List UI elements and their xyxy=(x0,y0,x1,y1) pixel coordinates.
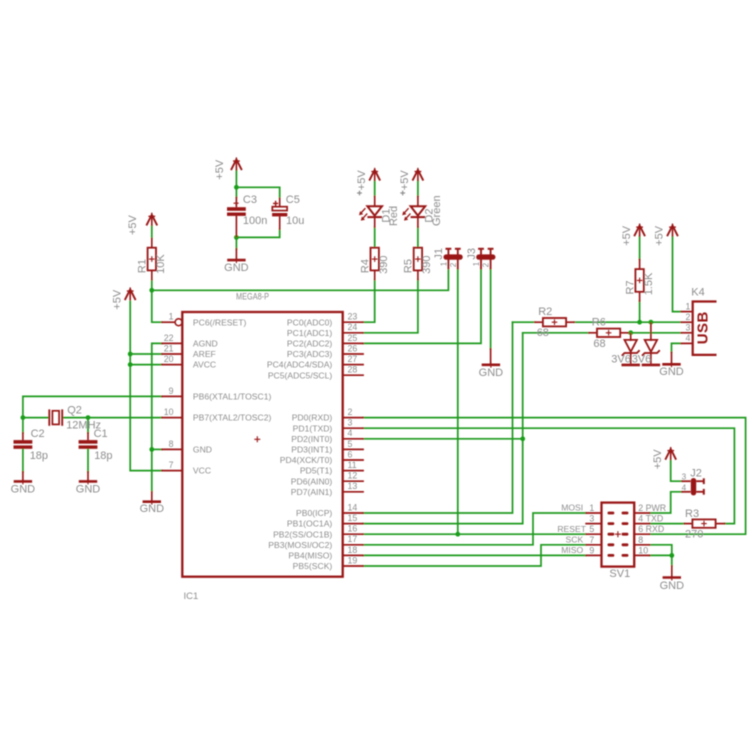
svg-text:18: 18 xyxy=(348,545,358,555)
svg-text:27: 27 xyxy=(348,354,358,364)
svg-text:+5V: +5V xyxy=(652,449,664,470)
svg-text:R4: R4 xyxy=(359,259,371,273)
svg-text:PD7(AIN1): PD7(AIN1) xyxy=(291,487,333,497)
svg-text:25: 25 xyxy=(348,333,358,343)
svg-text:R2: R2 xyxy=(538,306,552,318)
svg-text:1: 1 xyxy=(440,261,449,266)
svg-text:K4: K4 xyxy=(691,286,704,298)
svg-text:+5V: +5V xyxy=(399,170,411,191)
svg-text:1.5K: 1.5K xyxy=(643,272,655,295)
svg-text:3V6: 3V6 xyxy=(611,353,631,365)
svg-text:1: 1 xyxy=(169,312,174,322)
svg-text:PB7(XTAL2/TOSC2): PB7(XTAL2/TOSC2) xyxy=(193,413,272,423)
svg-text:PC5(ADC5/SCL): PC5(ADC5/SCL) xyxy=(268,370,333,380)
svg-text:8: 8 xyxy=(169,439,174,449)
svg-text:GND: GND xyxy=(660,580,685,592)
svg-text:18p: 18p xyxy=(94,450,112,462)
svg-text:C3: C3 xyxy=(243,194,257,206)
svg-text:4 TXD: 4 TXD xyxy=(638,514,663,524)
svg-text:R6: R6 xyxy=(592,317,606,329)
svg-text:PD2(INT0): PD2(INT0) xyxy=(291,434,332,444)
svg-text:23: 23 xyxy=(348,312,358,322)
svg-text:1: 1 xyxy=(685,301,690,311)
svg-text:3V6: 3V6 xyxy=(632,353,652,365)
svg-text:3: 3 xyxy=(589,514,594,524)
svg-text:1: 1 xyxy=(472,261,481,266)
svg-text:14: 14 xyxy=(348,502,358,512)
svg-text:PD5(T1): PD5(T1) xyxy=(300,466,333,476)
svg-text:C2: C2 xyxy=(31,428,45,440)
svg-text:9: 9 xyxy=(169,386,174,396)
svg-text:PB4(MISO): PB4(MISO) xyxy=(288,551,332,561)
svg-text:PC1(ADC1): PC1(ADC1) xyxy=(287,328,333,338)
svg-text:2: 2 xyxy=(449,262,458,267)
svg-text:7: 7 xyxy=(169,460,174,470)
svg-text:J1: J1 xyxy=(433,248,445,260)
svg-text:10: 10 xyxy=(164,407,174,417)
svg-text:PC3(ADC3): PC3(ADC3) xyxy=(287,349,333,359)
svg-text:VCC: VCC xyxy=(193,466,211,476)
svg-text:PC4(ADC4/SDA): PC4(ADC4/SDA) xyxy=(267,360,333,370)
svg-text:26: 26 xyxy=(348,343,358,353)
svg-text:1: 1 xyxy=(589,503,594,513)
svg-text:AREF: AREF xyxy=(193,349,216,359)
svg-text:R1: R1 xyxy=(137,259,149,273)
svg-text:21: 21 xyxy=(164,343,174,353)
svg-text:9: 9 xyxy=(589,545,594,555)
svg-text:2: 2 xyxy=(348,407,353,417)
svg-text:11: 11 xyxy=(348,460,357,470)
svg-text:GND: GND xyxy=(76,483,101,495)
svg-text:15: 15 xyxy=(348,513,358,523)
svg-text:Green: Green xyxy=(431,195,443,226)
svg-text:MISO: MISO xyxy=(561,545,583,555)
svg-text:R7: R7 xyxy=(624,280,636,294)
svg-text:GND: GND xyxy=(224,262,249,274)
svg-text:SCK: SCK xyxy=(566,535,584,545)
svg-text:+5V: +5V xyxy=(111,289,123,310)
svg-text:68: 68 xyxy=(537,327,549,339)
svg-text:6: 6 xyxy=(348,449,353,459)
svg-text:4: 4 xyxy=(348,428,353,438)
svg-text:PD4(XCK/T0): PD4(XCK/T0) xyxy=(280,455,333,465)
svg-text:19: 19 xyxy=(348,555,358,565)
svg-text:PC2(ADC2): PC2(ADC2) xyxy=(287,339,333,349)
svg-text:PD3(INT1): PD3(INT1) xyxy=(291,445,332,455)
svg-text:4: 4 xyxy=(682,483,687,492)
svg-text:5: 5 xyxy=(348,439,353,449)
svg-text:13: 13 xyxy=(348,481,358,491)
svg-text:12: 12 xyxy=(348,471,358,481)
svg-text:3: 3 xyxy=(348,418,353,428)
svg-text:GND: GND xyxy=(11,483,36,495)
svg-text:PC6(/RESET): PC6(/RESET) xyxy=(193,317,247,327)
svg-text:RESET: RESET xyxy=(557,524,586,534)
svg-text:100n: 100n xyxy=(243,215,267,227)
svg-text:390: 390 xyxy=(378,256,390,274)
svg-text:R5: R5 xyxy=(403,259,415,273)
svg-text:PD6(AIN0): PD6(AIN0) xyxy=(291,476,333,486)
svg-text:17: 17 xyxy=(348,534,358,544)
svg-text:+5V: +5V xyxy=(127,214,139,235)
svg-text:USB: USB xyxy=(695,311,712,344)
svg-text:PB0(ICP): PB0(ICP) xyxy=(296,508,332,518)
svg-text:4: 4 xyxy=(685,333,690,343)
svg-text:C5: C5 xyxy=(286,194,300,206)
svg-text:PC0(ADC0): PC0(ADC0) xyxy=(287,317,333,327)
svg-text:10K: 10K xyxy=(155,254,167,274)
svg-text:C1: C1 xyxy=(94,428,108,440)
svg-text:MOSI: MOSI xyxy=(561,503,583,513)
svg-text:GND: GND xyxy=(140,503,165,515)
svg-text:GND: GND xyxy=(479,367,504,379)
svg-text:PB5(SCK): PB5(SCK) xyxy=(293,561,333,571)
svg-text:20: 20 xyxy=(164,354,174,364)
svg-text:2 PWR: 2 PWR xyxy=(638,503,666,513)
svg-text:PB3(MOSI/OC2): PB3(MOSI/OC2) xyxy=(268,540,332,550)
svg-text:28: 28 xyxy=(348,365,358,375)
svg-text:2: 2 xyxy=(482,262,491,267)
svg-text:2: 2 xyxy=(685,312,690,322)
svg-text:J2: J2 xyxy=(690,467,702,479)
svg-text:Q2: Q2 xyxy=(67,405,82,417)
svg-text:PB2(SS/OC1B): PB2(SS/OC1B) xyxy=(273,529,332,539)
svg-text:18p: 18p xyxy=(30,450,48,462)
svg-text:22: 22 xyxy=(164,333,174,343)
svg-text:+5V: +5V xyxy=(214,159,226,180)
svg-text:J3: J3 xyxy=(466,248,478,260)
svg-text:3: 3 xyxy=(685,323,690,333)
svg-text:68: 68 xyxy=(593,338,605,350)
svg-text:10: 10 xyxy=(638,545,648,555)
svg-text:10u: 10u xyxy=(286,215,304,227)
svg-text:8: 8 xyxy=(638,535,643,545)
svg-text:PB6(XTAL1/TOSC1): PB6(XTAL1/TOSC1) xyxy=(193,392,272,402)
svg-text:AVCC: AVCC xyxy=(193,360,216,370)
svg-text:3: 3 xyxy=(682,473,687,482)
svg-text:+5V: +5V xyxy=(621,225,633,246)
svg-text:6 RXD: 6 RXD xyxy=(638,524,664,534)
svg-text:GND: GND xyxy=(659,366,684,378)
svg-text:PD0(RXD): PD0(RXD) xyxy=(292,413,333,423)
svg-text:270: 270 xyxy=(685,528,703,540)
svg-text:Red: Red xyxy=(388,206,400,226)
svg-text:R3: R3 xyxy=(685,508,699,520)
svg-text:5: 5 xyxy=(589,524,594,534)
svg-text:IC1: IC1 xyxy=(184,591,199,602)
svg-text:GND: GND xyxy=(193,445,212,455)
svg-text:PD1(TXD): PD1(TXD) xyxy=(293,423,333,433)
svg-text:390: 390 xyxy=(421,256,433,274)
svg-text:7: 7 xyxy=(589,535,594,545)
svg-text:SV1: SV1 xyxy=(609,568,630,580)
svg-text:+5V: +5V xyxy=(356,170,368,191)
svg-text:+5V: +5V xyxy=(654,225,666,246)
svg-text:AGND: AGND xyxy=(193,339,218,349)
svg-text:MEGA8-P: MEGA8-P xyxy=(236,291,269,302)
svg-text:24: 24 xyxy=(348,322,358,332)
svg-text:16: 16 xyxy=(348,524,358,534)
svg-text:PB1(OC1A): PB1(OC1A) xyxy=(287,519,333,529)
